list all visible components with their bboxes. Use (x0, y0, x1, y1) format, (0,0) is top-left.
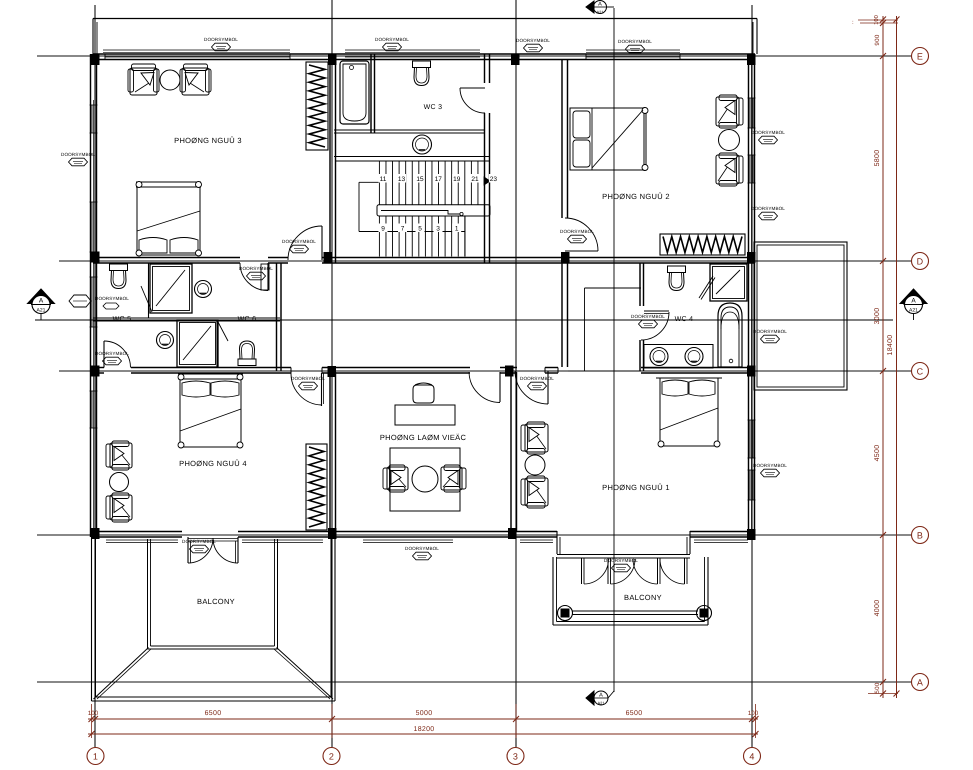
svg-text:19: 19 (453, 176, 461, 183)
grid bubble 3 (507, 748, 524, 765)
svg-text:900: 900 (874, 34, 881, 45)
bedroom1 armchair 2 (525, 478, 548, 506)
svg-text:DOORSYMBOL: DOORSYMBOL (751, 206, 785, 211)
section marker right (900, 289, 927, 304)
wc6 partition (216, 321, 218, 367)
stair tread numbers upper (379, 174, 388, 183)
svg-text:18400: 18400 (887, 335, 894, 356)
grid line 4 vertical (751, 5, 753, 747)
door symbol label bedroom1 door (520, 376, 554, 390)
door symbol label right wall 3 (753, 329, 787, 343)
svg-text:WC 4: WC 4 (675, 316, 694, 323)
wc6 lower door leaf (103, 341, 105, 368)
svg-text:DOORSYMBOL: DOORSYMBOL (204, 37, 238, 42)
column 13 (91, 528, 100, 539)
study bottom window sill (363, 539, 453, 541)
door symbol label bedroom4 door (291, 376, 325, 390)
column 4 (747, 54, 756, 65)
svg-text:DOORSYMBOL: DOORSYMBOL (631, 314, 665, 319)
left wall windows (91, 105, 93, 133)
svg-text:PHOØNG NGUÛ 1: PHOØNG NGUÛ 1 (602, 483, 670, 492)
bedroom2 west wall (561, 60, 563, 218)
right wall windows (749, 98, 751, 128)
door symbol label right wall 2 (751, 206, 785, 220)
svg-text:B: B (917, 531, 923, 541)
study east wall (510, 372, 512, 532)
right bay roof outline (754, 242, 847, 390)
balcony2 door leaf 4 (684, 559, 686, 585)
door symbol label wc4 door (631, 314, 665, 328)
column 12 (747, 366, 756, 377)
balcony2 rail (572, 610, 698, 612)
row C wall main segment left (131, 367, 291, 369)
grid bubble 2 (323, 748, 340, 765)
balcony2 column left (558, 606, 573, 621)
svg-text:DOORSYMBOL: DOORSYMBOL (516, 38, 550, 43)
bedroom1 armchair 1 (525, 424, 548, 452)
svg-text:WC 6: WC 6 (238, 316, 257, 323)
right dimension line 1 (882, 16, 884, 698)
stair east wall (484, 54, 486, 83)
wc5 toilet (110, 264, 128, 271)
balcony1 outer edge left (91, 537, 93, 701)
column 1 (91, 54, 100, 65)
bedroom4 side table (110, 473, 129, 492)
door symbol label bedroom3 door (282, 239, 316, 253)
bottom wall bedroom1 right segment (690, 531, 755, 533)
bedroom2 side table (719, 130, 740, 151)
wc3 bathtub (340, 61, 369, 124)
svg-text:DOORSYMBOL: DOORSYMBOL (618, 39, 652, 44)
grid bubble 1 (87, 748, 104, 765)
stair up arrow head (484, 177, 490, 185)
svg-text:15: 15 (416, 176, 424, 183)
svg-text:3: 3 (513, 752, 518, 762)
right exterior wall (748, 54, 750, 537)
door symbol label right wall 4 (753, 463, 787, 477)
bedroom3 armchair 2 (182, 68, 209, 95)
wc4 counter (644, 345, 713, 369)
left exterior wall (90, 54, 92, 537)
door symbol label left bedroom3 (61, 152, 95, 166)
wc5 wc6 divider wall (93, 317, 280, 319)
bedroom4 armchair 1 (110, 443, 132, 468)
bedroom3 door leaf (321, 226, 323, 260)
svg-text:4500: 4500 (874, 445, 881, 462)
study desk chair (413, 385, 434, 403)
svg-text:DOORSYMBOL: DOORSYMBOL (282, 239, 316, 244)
balcony1 corner diagonal left (94, 648, 149, 700)
wc6 toilet (238, 359, 256, 366)
right dimension extension ticks (858, 19, 898, 21)
bedroom4 bottom window sill (106, 539, 178, 541)
svg-text:E: E (917, 52, 923, 62)
stair center rail (377, 205, 490, 216)
balcony1 inner rect (147, 539, 149, 649)
grid line 1 vertical (94, 5, 96, 747)
door symbol label wc6 upper door (239, 266, 273, 280)
svg-text:3: 3 (436, 226, 440, 233)
door symbol label top wall 3 (516, 38, 550, 52)
svg-text:DOORSYMBOL: DOORSYMBOL (182, 539, 216, 544)
column 3 (511, 54, 520, 65)
svg-text:D: D (917, 257, 924, 267)
balcony1 door leaf right (237, 537, 239, 563)
svg-text:DOORSYMBOL: DOORSYMBOL (291, 376, 325, 381)
grid line 3 vertical (515, 0, 517, 747)
svg-text:DOORSYMBOL: DOORSYMBOL (520, 376, 554, 381)
svg-text:9: 9 (381, 226, 385, 233)
column 5 (91, 252, 100, 263)
bedroom4 door leaf (321, 373, 323, 406)
wc3 bottom wall (334, 129, 484, 131)
svg-text:11: 11 (380, 176, 387, 183)
bedroom2 armchair 1 (716, 97, 739, 126)
svg-text:DOORSYMBOL: DOORSYMBOL (405, 546, 439, 551)
balcony2 door arc 2 (611, 559, 636, 584)
grid line 2 vertical (331, 0, 333, 747)
stair upper flight treads (378, 161, 380, 205)
column 8 (747, 252, 756, 263)
svg-text:100: 100 (88, 710, 99, 717)
bedroom4 armchair 2 (110, 495, 132, 520)
svg-text:3000: 3000 (874, 308, 881, 325)
stair west wall (329, 54, 331, 263)
column 14 (328, 528, 337, 539)
wc6 east wall (276, 263, 278, 371)
left eave edge (92, 19, 94, 55)
bottom dimension line 2 (88, 733, 758, 735)
svg-text:1: 1 (455, 226, 459, 233)
bedroom2 door arc (565, 218, 598, 251)
top wall window middle lines (105, 56, 290, 58)
bedroom1 closet walls (584, 288, 586, 371)
section line B-B vertical (613, 8, 615, 692)
svg-text:PHOØNG NGUÛ 4: PHOØNG NGUÛ 4 (179, 459, 247, 468)
wc4 door leaf (644, 310, 669, 312)
grid bubble D (912, 253, 929, 270)
study desk (395, 405, 455, 425)
wc6 lower door arc (104, 341, 131, 368)
svg-text:PHOØNG LAØM VIEÄC: PHOØNG LAØM VIEÄC (380, 433, 467, 442)
svg-text:BALCONY: BALCONY (197, 597, 235, 606)
svg-text:A21: A21 (909, 308, 918, 314)
svg-text:WC 5: WC 5 (113, 316, 132, 323)
wc6 upper door leaf (267, 263, 269, 290)
bedroom2 bed (570, 108, 646, 170)
section marker bottom (594, 691, 608, 705)
balcony1 corner diagonal right (277, 648, 334, 700)
svg-text:7: 7 (401, 226, 405, 233)
wc5 shower (150, 264, 192, 313)
wc4 toilet (668, 266, 686, 273)
balcony1 door left arc (188, 538, 213, 563)
svg-text:DOORSYMBOL: DOORSYMBOL (95, 351, 129, 356)
grid bubble 4 (744, 748, 761, 765)
bedroom1 bed (660, 378, 718, 446)
bedroom4 bed (180, 379, 241, 447)
bottom dimension line 1 (88, 718, 758, 720)
stair lower flight right edge (464, 216, 466, 257)
column 9 (91, 366, 100, 377)
section line A-A horizontal (35, 319, 893, 321)
grid row E horizontal (37, 55, 911, 57)
grid row B horizontal (37, 534, 911, 536)
wc3 sink (413, 135, 432, 154)
wc3 toilet (413, 61, 431, 68)
grid bubble B (912, 527, 929, 544)
bedroom3 side table (160, 70, 180, 90)
column 16 (747, 529, 756, 540)
bedroom3 wardrobe (306, 62, 328, 150)
study table circle (412, 466, 438, 492)
door symbol label study bottom (405, 546, 439, 560)
svg-text:A: A (598, 2, 602, 8)
bottom wall study segment (332, 531, 516, 533)
bottom dimension extension lines (91, 704, 93, 738)
svg-text:100: 100 (873, 15, 880, 25)
svg-text:17: 17 (435, 176, 443, 183)
bedroom2 wardrobe (660, 234, 745, 255)
svg-text::: : (852, 20, 854, 26)
grid bubble C (912, 363, 929, 380)
svg-text:13: 13 (398, 176, 406, 183)
svg-text:4000: 4000 (874, 600, 881, 617)
wc4 door arc (641, 312, 669, 340)
wc3 door leaf (460, 87, 485, 89)
bedroom4 door arc (291, 373, 322, 405)
right dimension line 2 (896, 16, 898, 698)
stair landing left connector (358, 182, 360, 231)
bedroom1 door leaf (547, 371, 549, 404)
row D wall left segment (93, 257, 240, 259)
balcony1 right window sill (242, 539, 323, 541)
bottom wall bedroom4 right segment (238, 531, 335, 533)
row D wall mid segment (268, 257, 288, 259)
balcony2 door leaf 3 (657, 559, 659, 585)
wc5 shower door flap (141, 286, 152, 312)
svg-text:DOORSYMBOL: DOORSYMBOL (753, 329, 787, 334)
grid row A horizontal (37, 681, 911, 683)
balcony2 threshold wall (557, 554, 690, 556)
wc4 bathtub (718, 303, 742, 367)
row C wall mid segment (500, 367, 517, 369)
wc4 west wall lower (639, 340, 641, 371)
stair lower flight treads (378, 216, 380, 257)
svg-text:DOORSYMBOL: DOORSYMBOL (375, 37, 409, 42)
row C wall main segment right (322, 367, 470, 369)
wc3 tub partition wall (370, 54, 372, 133)
right eave edge (756, 19, 758, 55)
door symbol label right wall 1 (751, 130, 785, 144)
corridor duct rect (261, 264, 269, 290)
svg-text:6500: 6500 (626, 710, 643, 717)
row C wall right segment (641, 367, 752, 369)
study door arc (469, 372, 500, 403)
svg-text:WC 3: WC 3 (424, 104, 443, 111)
svg-text:500: 500 (874, 682, 881, 693)
grid row C horizontal (59, 370, 911, 372)
study west wall (329, 372, 331, 532)
svg-text:A: A (599, 693, 603, 699)
wc3 door arc (460, 88, 485, 113)
svg-text:BALCONY: BALCONY (624, 593, 662, 602)
grid bubble E (912, 48, 929, 65)
column 10 (328, 366, 337, 377)
wc4 sink 2 (685, 348, 703, 366)
wc6 shower (177, 320, 218, 367)
bedroom2 door leaf (565, 250, 598, 252)
window symbol hexagon left (69, 295, 91, 307)
wc3 counter bottom line (334, 156, 490, 158)
svg-text:1: 1 (93, 752, 98, 762)
section marker left (28, 289, 55, 304)
svg-text:DOORSYMBOL: DOORSYMBOL (604, 558, 638, 563)
svg-text:4: 4 (749, 752, 754, 762)
svg-text:DOORSYMBOL: DOORSYMBOL (95, 296, 129, 301)
svg-text:A: A (911, 298, 916, 305)
wc6 upper door arc (240, 263, 268, 291)
wc4 shower (710, 264, 747, 301)
door symbol label top wall 2 (375, 37, 409, 51)
balcony2 door leaf 1 (581, 559, 583, 585)
balcony2 outer box (552, 557, 554, 625)
column 15 (508, 528, 517, 539)
svg-text:2: 2 (329, 752, 334, 762)
top wall window lintel lines (103, 49, 290, 51)
bedroom3 armchair 1 (130, 68, 157, 95)
bottom wall bedroom1 left segment (516, 531, 557, 533)
balcony2 door leaf 2 (607, 559, 609, 585)
bedroom1 door arc (515, 371, 548, 404)
bedroom2 armchair 2 (716, 155, 739, 184)
svg-text:5: 5 (418, 226, 422, 233)
svg-text:C: C (917, 367, 924, 377)
svg-text:23: 23 (490, 176, 498, 183)
svg-text:DOORSYMBOL: DOORSYMBOL (560, 229, 594, 234)
stair top line (336, 160, 490, 162)
row D wall right segment (322, 257, 755, 259)
balcony2 column right (697, 606, 712, 621)
bedroom3 door arc (288, 226, 322, 260)
grid bubble A (912, 674, 929, 691)
svg-text:6500: 6500 (205, 710, 222, 717)
wc4 shower door flap (699, 276, 713, 298)
balcony2 door arc 4 (660, 559, 685, 584)
door symbol label top wall 1 (204, 37, 238, 51)
top eave line (93, 18, 757, 20)
door symbol label wc5 lower door (95, 351, 129, 365)
wc6 shower door flap (218, 322, 228, 341)
study table (390, 448, 460, 511)
balcony2 door arc 1 (584, 559, 609, 584)
svg-text:PHOØNG NGUÛ 2: PHOØNG NGUÛ 2 (602, 192, 670, 201)
balcony1 door threshold (188, 538, 238, 540)
bedroom1 closet front line (568, 370, 641, 372)
bottom wall bedroom4 left segment (93, 531, 182, 533)
balcony1 door right arc (213, 538, 238, 563)
stair tread numbers lower (379, 224, 388, 233)
door symbol label balcony2 door (604, 558, 638, 572)
door symbol label bedroom2 door (560, 229, 594, 243)
svg-text:A21: A21 (37, 308, 46, 314)
wc6 sink (157, 332, 174, 349)
bedroom1 west wall (561, 263, 563, 367)
study door leaf (499, 372, 501, 402)
svg-text:5000: 5000 (416, 710, 433, 717)
svg-text:5800: 5800 (874, 150, 881, 167)
svg-text:100: 100 (748, 710, 759, 717)
row C wall left segment (93, 367, 104, 369)
balcony2 door arc 3 (633, 559, 658, 584)
study armchair left (387, 467, 408, 490)
wc5 sink (195, 281, 212, 298)
svg-text:A: A (39, 298, 44, 305)
column 6 (324, 252, 333, 263)
balcony1 outer edge bottom (92, 700, 336, 702)
svg-text:DOORSYMBOL: DOORSYMBOL (61, 152, 95, 157)
svg-text:A21: A21 (596, 10, 604, 15)
door symbol label top wall 4 (618, 39, 652, 53)
door symbol label balcony1 door (182, 539, 216, 553)
bedroom1 bottom window sill right (694, 539, 748, 541)
svg-text:21: 21 (471, 176, 479, 183)
balcony1 door leaf left (187, 537, 189, 563)
svg-text:DOORSYMBOL: DOORSYMBOL (751, 130, 785, 135)
wc4 sink 1 (650, 348, 668, 366)
wc5 partition (148, 263, 150, 318)
bedroom3 bed (137, 187, 200, 255)
bedroom1 side table (525, 455, 545, 475)
svg-text:DOORSYMBOL: DOORSYMBOL (239, 266, 273, 271)
column 11 (505, 366, 514, 377)
bedroom4 wardrobe (306, 444, 327, 530)
svg-text:A: A (917, 678, 923, 688)
svg-text:PHOØNG NGUÛ 3: PHOØNG NGUÛ 3 (174, 136, 242, 145)
wc4 west wall upper (639, 263, 641, 306)
column 2 (328, 54, 337, 65)
top exterior wall (93, 53, 755, 55)
balcony2 recess step walls (556, 531, 558, 554)
svg-text:DOORSYMBOL: DOORSYMBOL (753, 463, 787, 468)
bedroom1 bottom window sill left (520, 539, 553, 541)
svg-text:A21: A21 (597, 701, 605, 706)
column 7 (561, 252, 570, 263)
grid row D horizontal (59, 260, 911, 262)
balcony1 outer edge right (334, 537, 336, 701)
section marker top (594, 1, 607, 14)
svg-text:18200: 18200 (414, 726, 435, 733)
study armchair right (441, 467, 462, 490)
